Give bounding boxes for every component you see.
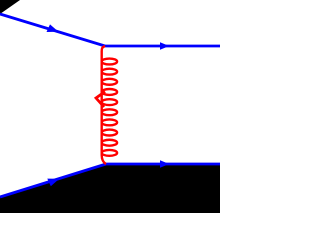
- black corner wedge top-left: [0, 0, 20, 14]
- Feynman diagram: quark-quark scattering via gluon exchange: [0, 0, 220, 213]
- black region below lower quark lines: [0, 164, 220, 213]
- wire: outgoing quark line bottom-right: [106, 163, 220, 166]
- red momentum-direction chevron on gluon: [96, 92, 105, 108]
- white background: [0, 0, 220, 213]
- wire: incoming quark line bottom-left: [0, 164, 106, 197]
- gluon propagator: spine: [102, 46, 106, 164]
- wire: outgoing quark line top-right: [105, 45, 220, 48]
- arrowhead on outgoing bottom quark line: [160, 160, 169, 168]
- arrowhead on incoming top quark line: [47, 24, 59, 32]
- arrowhead on incoming bottom quark line: [47, 179, 59, 187]
- wire: incoming quark line top-left: [0, 14, 105, 46]
- gluon propagator: coil loops: [102, 59, 117, 156]
- arrowhead on outgoing top quark line: [160, 42, 169, 50]
